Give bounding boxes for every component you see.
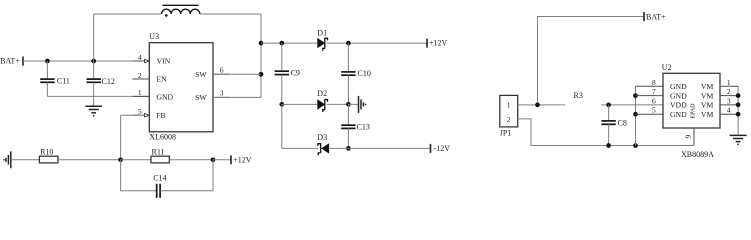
svg-text:BAT+: BAT+ [0,57,20,66]
svg-text:C14: C14 [153,174,166,183]
svg-text:2: 2 [507,115,511,124]
capacitor C13 [341,104,355,148]
pin 2 stub (VM) [720,95,738,97]
svg-text:4: 4 [138,53,142,62]
junction +12V node (bottom) [211,157,216,162]
junction VM pin4 [736,112,741,117]
svg-text:1: 1 [727,78,731,87]
wire D3 anode to -12V rail [329,147,430,149]
svg-text:8: 8 [652,78,656,87]
capacitor C11 [40,61,54,96]
wire JP1 pin1 to R3 [518,104,566,106]
wire R11 to +12V node [169,159,213,161]
wire C14 branch up-right [160,160,213,191]
wire FB down to R10/R11 node [120,115,122,160]
wire SW pin 6 [213,73,261,75]
pin 5 FB input arrow [145,114,150,117]
svg-text:9: 9 [683,135,692,139]
diode D2 (schottky) [317,99,327,112]
junction at C12 [91,59,96,64]
wire BAT+ junction up to inductor [93,14,95,61]
svg-text:2: 2 [138,71,142,80]
svg-text:SW: SW [195,70,207,79]
junction C13 bottom / -12V rail [346,146,351,151]
svg-text:2: 2 [727,87,731,96]
ground (left-pointing) at R10 [4,151,11,168]
wire C14 branch down-left [121,160,157,191]
svg-text:XB8089A: XB8089A [681,150,714,159]
wire JP1 pin2 to ground rail [518,119,694,146]
pin 2 EN stub [132,78,149,80]
junction at C11 [45,59,50,64]
pin 4 stub (VM) [720,113,738,115]
pin 1 stub [133,95,149,97]
svg-text:FB: FB [156,111,165,120]
ground below VM rail [730,135,747,144]
svg-text:U2: U2 [662,63,672,72]
wire R10 to FB node [58,159,121,161]
svg-text:1: 1 [138,88,142,97]
junction gnd vertical / rail [633,143,638,148]
port -12V terminal bar [430,144,432,153]
pin 6 stub [213,73,229,75]
svg-text:C11: C11 [57,77,70,86]
svg-text:R11: R11 [152,147,165,156]
diode D1 (schottky) [317,38,327,51]
inductor L (with core bar and polarity dot) [162,5,200,16]
svg-text:GND: GND [670,110,687,119]
svg-text:VM: VM [701,101,714,110]
wire SW vertical [260,14,262,97]
svg-text:VM: VM [701,91,714,100]
svg-text:C10: C10 [358,69,371,78]
wire C9 bottom down to D3 row [281,104,283,148]
connector JP1 body [500,95,518,127]
svg-text:C12: C12 [102,77,115,86]
svg-text:GND: GND [156,92,173,101]
svg-text:4: 4 [727,106,731,115]
junction C10 top [346,41,351,46]
wire BAT+ to VIN [23,60,145,62]
pin 3 stub (VM) [720,104,738,106]
wire ground to R10 [11,159,40,161]
svg-text:VM: VM [701,82,714,91]
svg-text:C9: C9 [291,68,300,77]
svg-text:+12V: +12V [233,155,252,164]
svg-text:+12V: +12V [429,39,448,48]
svg-text:5: 5 [652,106,656,115]
svg-text:6: 6 [652,96,656,105]
junction C8 top [606,103,611,108]
wire D2 cathode to mid node [327,103,349,105]
svg-text:3: 3 [220,89,224,98]
svg-text:VM: VM [701,110,714,119]
junction BAT+ / pin1 wire [535,103,540,108]
junction C9 bottom / D2 anode [279,102,284,107]
port BAT+ terminal bar (left) [22,57,24,66]
svg-text:GND: GND [670,91,687,100]
junction pin5 [633,112,638,117]
pin 4 stub [133,60,145,62]
pin 5 stub [133,114,145,116]
svg-text:BAT+: BAT+ [646,12,666,21]
svg-text:-12V: -12V [434,144,451,153]
wire inductor to SW vertical [200,13,261,15]
resistor R10 [39,156,58,163]
junction C9 top [279,41,284,46]
op-amp U3 body [149,43,213,132]
svg-text:C13: C13 [357,123,370,132]
junction pin7 [633,93,638,98]
junction SW / pin6 [259,72,264,77]
wire R3 to VDD pin 6 [601,104,663,106]
capacitor C8 [601,105,615,146]
pin 4 input arrow [145,59,150,62]
wire C11/C12 bottoms to GND pin 1 [47,95,149,97]
svg-text:VDD: VDD [670,101,687,110]
svg-text:6: 6 [220,65,224,74]
svg-text:EPAD: EPAD [691,103,697,119]
wire VM rail [737,86,739,134]
svg-text:C8: C8 [618,119,627,128]
wire D2 row [282,103,318,105]
svg-text:7: 7 [652,87,656,96]
svg-text:3: 3 [727,96,731,105]
ground under C12 [85,96,102,115]
wire top left to inductor [94,13,162,15]
wire FB node to R11 [121,159,151,161]
svg-text:JP1: JP1 [500,129,512,138]
pin 9 stub [693,128,695,146]
svg-text:U3: U3 [149,32,159,41]
wire GND pins vertical [635,86,637,145]
capacitor C14 [157,184,160,198]
IC U2 body [663,73,720,128]
svg-text:XL6008: XL6008 [149,133,176,142]
port +12V terminal bar (bottom) [230,155,232,164]
wire D3 row left [282,147,319,149]
svg-text:SW: SW [195,93,207,102]
pin 8 stub [636,85,664,87]
junction FB node [118,157,123,162]
svg-text:GND: GND [670,82,687,91]
svg-text:D1: D1 [317,28,327,37]
pin 5 stub [636,113,664,115]
wire BAT+ top (right circuit) [538,17,645,105]
wire D1 row from SW node [261,42,317,44]
resistor R11 [151,156,169,163]
junction VM pin3 [736,103,741,108]
junction VM pin2 [736,93,741,98]
junction SW / D1 row [259,41,264,46]
ground (right-pointing) at mid node [348,96,365,113]
wire D1 to +12V rail [327,42,428,44]
svg-text:R10: R10 [40,147,53,156]
svg-text:VIN: VIN [157,56,171,65]
svg-text:D3: D3 [317,133,327,142]
svg-text:D2: D2 [317,89,327,98]
port BAT+ terminal bar (right) [643,12,645,21]
capacitor C12 [87,61,101,96]
diode D3 (schottky, cathode left) [318,143,329,155]
svg-text:EN: EN [156,75,167,84]
junction C8 bottom [606,143,611,148]
port +12V terminal bar (top) [426,39,428,48]
wire FB left [121,114,145,116]
pin 3 stub [213,96,229,98]
svg-text:1: 1 [507,100,511,109]
junction mid node [346,102,351,107]
capacitor C10 [341,43,355,104]
pin 1 stub (VM) [720,85,738,87]
wire SW pin 3 [213,96,261,98]
pin 7 stub [636,95,664,97]
svg-text:5: 5 [138,107,142,116]
capacitor C9 [275,43,289,104]
wire to +12V bar (bottom) [213,159,231,161]
svg-text:R3: R3 [574,91,583,100]
